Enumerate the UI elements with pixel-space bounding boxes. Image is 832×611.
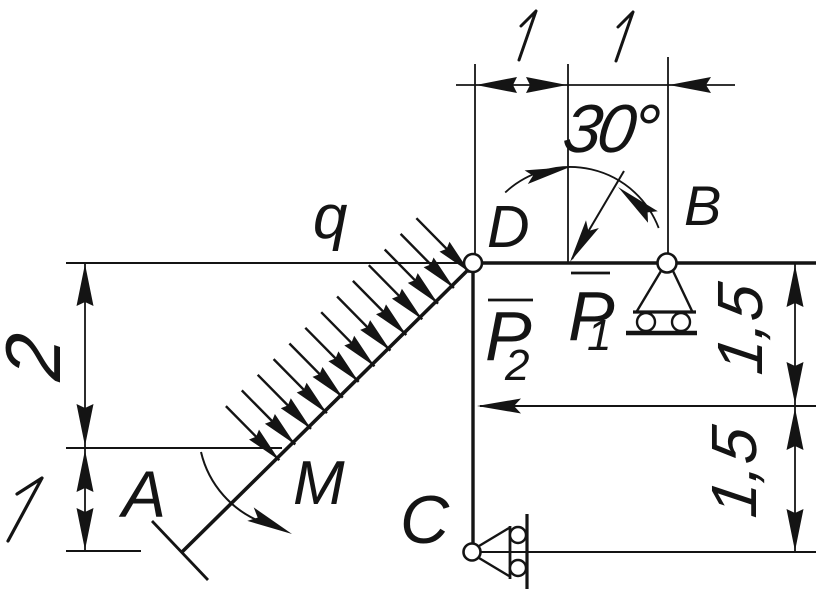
left dim arrow down (tip at M level) — [77, 404, 94, 446]
left dimension line x=85 — [84, 263, 86, 551]
right dimension line x=795 — [794, 264, 796, 552]
roller support B: triangle legs — [637, 271, 661, 311]
svg-text:q: q — [313, 183, 348, 252]
dim arrow tip at x=475 pointing left — [476, 77, 517, 93]
svg-text:30°: 30° — [559, 91, 663, 167]
arc arrow at vertical line, pointing right — [525, 167, 570, 184]
pin D (hinge circle) — [464, 254, 482, 272]
top dimension line — [456, 84, 735, 86]
roller support B: base line — [633, 310, 696, 313]
force P1 line and arrowhead (30deg from vertical, tip on beam) — [572, 171, 624, 259]
angle dimension arc (center at P1 application point) — [505, 167, 659, 228]
roller support C: base line — [509, 526, 512, 579]
svg-text:D: D — [487, 194, 530, 260]
wire: reference line at C level going right — [481, 551, 816, 553]
pin C (hinge circle) — [464, 544, 481, 561]
left dim arrow down (tip at A level) — [77, 508, 94, 550]
svg-text:1,5: 1,5 — [704, 279, 776, 378]
extension line at P1 (x=568) — [567, 64, 569, 262]
wire: reference line at beam level (left, thin) — [66, 262, 473, 264]
svg-text:2: 2 — [504, 341, 529, 390]
svg-text:1: 1 — [587, 311, 611, 360]
bar AD (inclined member) — [182, 263, 475, 552]
beam from D through B to right reference (thick) — [473, 261, 816, 264]
right dim arrow up (tip at beam) — [787, 265, 804, 307]
roller support C: triangle legs (pointing right) — [479, 528, 509, 546]
svg-text:2: 2 — [0, 329, 77, 386]
left dim arrow up (tip at beam level) — [77, 264, 94, 306]
dim label 1 (left span), drawn as strokes — [519, 11, 536, 60]
svg-text:C: C — [400, 482, 450, 558]
dim arrow tip at x=568 pointing right — [526, 77, 567, 93]
left dim arrow up (tip at M level) — [77, 450, 94, 492]
dim arrow tip at x=668 pointing left (outside) — [669, 77, 711, 93]
end stroke at A (perpendicular tick) — [152, 521, 208, 580]
wire: reference line at M level (left, thin) — [66, 447, 282, 449]
wire: reference line at A level (left, thin) — [66, 550, 141, 552]
svg-text:M: M — [293, 449, 345, 518]
pin B (hinge circle) — [658, 254, 677, 273]
svg-text:A: A — [118, 457, 166, 531]
moment M arc with arrowhead — [201, 452, 264, 523]
roller support B: ground line — [626, 331, 697, 336]
roller support C: rollers — [510, 527, 526, 543]
right dim arrow down (tip at C level) — [787, 509, 804, 551]
column CD (vertical member) — [471, 263, 474, 543]
right dim arrow down (tip at P2 line) — [787, 362, 804, 404]
extension line at B (x=668) — [667, 57, 669, 253]
distributed load q: 13 arrows perpendicular to bar AD — [226, 218, 470, 460]
svg-text:B: B — [684, 174, 721, 237]
roller support B: rollers — [637, 313, 655, 331]
force P2 arrowhead pointing left at column — [477, 399, 521, 414]
right dim arrow up (tip at P2 line) — [787, 408, 804, 450]
dim label 1 (right span), drawn as strokes — [616, 12, 633, 61]
arc arrow at force P1 line, pointing up-left — [618, 187, 658, 223]
force P2 horizontal line (also right dim extension at mid) — [480, 405, 816, 407]
dim label 1 (rotated, left bottom), drawn as strokes — [8, 478, 42, 541]
roller support C: ground line — [525, 514, 528, 589]
extension line at D (x=475) — [474, 64, 476, 254]
svg-text:1,5: 1,5 — [698, 422, 770, 521]
